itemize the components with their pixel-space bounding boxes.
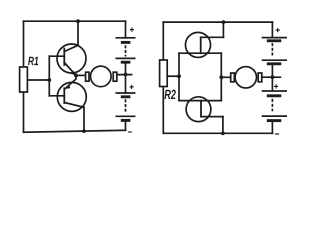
label: minus sign (right battery)	[275, 133, 279, 135]
tube L2 (bottom triode)	[179, 97, 223, 122]
wire: right circuit left vertical wire	[162, 22, 164, 133]
wire: cathode vertical (tubes to motor)	[220, 53, 222, 100]
node: cathode-motor junction	[219, 75, 223, 79]
motor M1 (left)	[86, 66, 117, 87]
node: battery mid-tap junction (right)	[271, 75, 275, 79]
battery GB2 (right, 4 cells with dashed gaps)	[262, 22, 287, 133]
wire: left circuit bottom rail	[24, 130, 126, 132]
wire: motor to battery mid-tap	[117, 74, 132, 76]
label: minus sign (left battery)	[128, 131, 132, 133]
tube L1 (top triode)	[179, 32, 223, 57]
motor M2 (right)	[231, 67, 262, 88]
label: plus sign top cell (right battery)	[276, 28, 280, 32]
wire: right circuit top rail	[163, 21, 272, 23]
label: plus sign mid cell (right battery)	[274, 84, 278, 88]
wire: left circuit top rail	[24, 20, 126, 22]
transistor V2 (bottom, PNP)	[57, 75, 86, 111]
resistor R2	[160, 60, 176, 99]
node: collector junction on top rail	[76, 19, 80, 23]
wire: right circuit bottom rail	[163, 132, 272, 134]
wire: top transistor base lead	[49, 55, 64, 57]
wire: top transistor collector to top rail	[77, 21, 79, 45]
battery GB1 (left, 4 cells with dashed gaps)	[116, 21, 136, 130]
node: output junction (emitters + motor)	[74, 73, 78, 77]
wire: cathode junction to motor	[221, 76, 230, 78]
wire: top tube anode to top rail	[222, 22, 224, 37]
node: R1-link junction	[47, 78, 51, 82]
label: plus sign top cell (left battery)	[130, 28, 134, 32]
node: collector junction on bottom rail	[82, 129, 86, 133]
wire: left circuit left vertical wire	[23, 21, 25, 132]
wire: bottom transistor collector to bottom rail	[83, 107, 85, 131]
wire: bottom tube anode to bottom rail	[222, 117, 224, 134]
node: battery mid-tap junction	[124, 73, 128, 77]
resistor R1	[20, 57, 39, 92]
wire: grid link vertical	[178, 53, 180, 100]
wire: output junction to motor	[76, 74, 86, 76]
node: anode junction on bottom rail	[221, 131, 225, 135]
label: plus sign mid cell (left battery)	[130, 85, 134, 89]
transistor V1 (top, NPN)	[57, 44, 86, 75]
wire: R1 lead to base link	[27, 79, 49, 81]
node: anode junction on top rail	[222, 20, 226, 24]
wire: R2 lead to grid link	[167, 75, 180, 77]
wire: motor to battery mid-tap (right)	[262, 76, 281, 78]
node: R2-link junction	[177, 74, 181, 78]
wire: base link vertical	[48, 56, 50, 96]
wire: bottom transistor base lead	[49, 95, 64, 97]
